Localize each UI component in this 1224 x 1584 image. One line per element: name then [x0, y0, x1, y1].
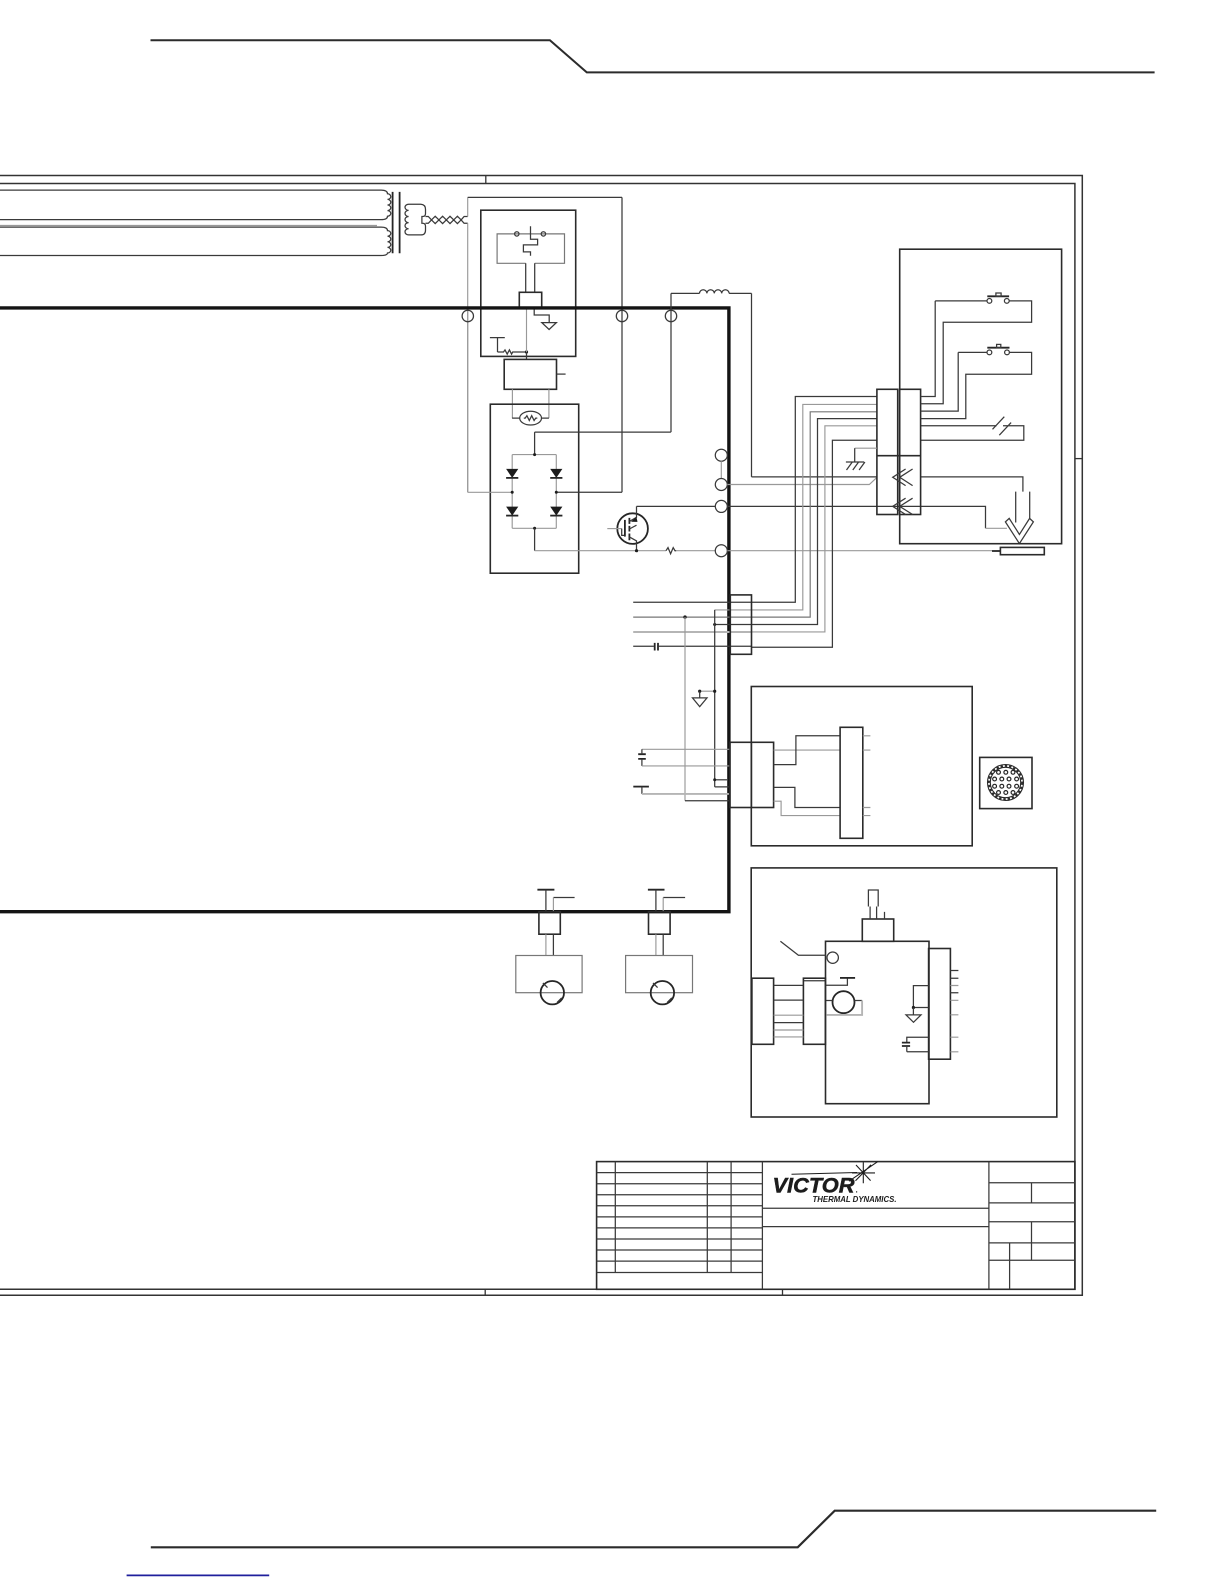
connector J5 left half — [752, 978, 774, 1044]
connector CNC pins — [993, 770, 1019, 794]
terminal TB1 stud block — [539, 912, 560, 935]
wire bridge branches — [512, 455, 556, 529]
title block right rows — [989, 1183, 1075, 1261]
resistor element inside CB1 — [524, 416, 538, 421]
node AC left — [511, 491, 514, 494]
wire DC- drop — [534, 528, 536, 550]
node hook — [912, 1006, 915, 1009]
wire coil to junction — [526, 308, 528, 352]
connector J1 torch right half — [900, 389, 921, 514]
igbt Q1 arrow — [631, 517, 638, 522]
relay coil box on bulkhead — [519, 292, 541, 307]
feedthrough bushing mid — [616, 310, 627, 321]
chassis ground symbol — [846, 462, 865, 470]
wire electrode lead right — [921, 477, 1023, 492]
wire coil ground jog — [534, 308, 549, 323]
wire AC input right — [556, 491, 622, 493]
footer link underline — [127, 1574, 270, 1576]
contact chevrons upper — [893, 469, 913, 486]
terminal TB1 tsensor — [537, 889, 554, 891]
wire motor return loop — [826, 1001, 863, 1015]
drawing frame inner border — [0, 184, 1075, 1290]
wire pilot return — [727, 477, 877, 484]
relay plunger stem — [526, 263, 535, 292]
wire driver to breaker — [512, 389, 549, 418]
wire control 5 left — [633, 631, 751, 633]
pins inlet — [870, 907, 884, 920]
relay contact terminal left — [515, 232, 519, 236]
igbt Q1 body — [617, 513, 648, 544]
logo star — [849, 1162, 878, 1184]
connector J5 right half — [803, 978, 825, 1044]
wire electrode feed drop — [751, 293, 753, 477]
connector J7 board edge left half — [730, 742, 751, 807]
diode D1 — [506, 469, 518, 478]
connector CNC square — [980, 757, 1032, 808]
ticks TB2 — [653, 983, 672, 1002]
capacitor C3 — [902, 1043, 910, 1046]
wire PIP loop back — [921, 426, 1024, 441]
terminal TB1 elbow — [553, 897, 574, 899]
flow switch lever — [780, 941, 826, 955]
logo swoosh — [792, 1173, 858, 1175]
switch SW2 bar — [987, 347, 1009, 349]
relay K1 contact housing — [497, 234, 564, 263]
pins J6 right dark — [950, 971, 958, 993]
feedthrough grommet 3 — [715, 500, 727, 512]
wire secondary leads — [426, 217, 432, 224]
transformer T1 secondary winding — [405, 204, 425, 235]
igbt Q1 gate bar — [624, 520, 626, 537]
node lower tap — [713, 778, 716, 781]
contact chevrons lower — [893, 498, 913, 514]
wire emitter bus — [535, 550, 716, 552]
wire work lead — [727, 550, 992, 552]
flow switch contact — [827, 952, 838, 963]
relay driver box A1 — [504, 359, 556, 389]
wire pilot to tip — [986, 527, 1007, 529]
thermostat TS1 — [490, 338, 505, 352]
switch SW2 button — [997, 344, 1001, 347]
header J3 on board — [840, 727, 863, 838]
wire control 5 — [752, 426, 877, 632]
wire board pin 4 — [774, 801, 841, 815]
switch SW1 button — [996, 293, 1001, 296]
feedthrough grommet 1 — [715, 449, 727, 461]
feedthrough grommet 4 — [715, 545, 727, 557]
title block right sub columns — [1010, 1183, 1032, 1290]
wire electrode feed to connector — [752, 476, 877, 478]
connector J4 top — [862, 919, 893, 941]
connector J7 board edge right half — [751, 742, 773, 807]
connector J6 right — [929, 949, 951, 1060]
gas control box — [751, 868, 1057, 1117]
connector CNC ring — [988, 765, 1024, 801]
ferrite beads L1 — [432, 216, 462, 223]
wire board pin 3 — [774, 787, 841, 807]
header rule — [151, 40, 1155, 72]
diode D3 — [506, 507, 518, 516]
relay contact terminal right — [541, 232, 545, 236]
wire pilot to torch — [727, 506, 985, 528]
ground arrow mid — [693, 691, 708, 706]
igbt Q1 emitter — [629, 537, 636, 551]
pump motor M1 — [833, 991, 855, 1013]
node relay coil junction — [525, 350, 528, 353]
resistor R1 — [498, 350, 526, 354]
switch SW2 wire right — [921, 352, 1032, 418]
wire AC input left — [468, 491, 513, 493]
title block revision rows — [597, 1173, 763, 1273]
wire shield ground stub — [855, 447, 877, 449]
title block logo dividers — [762, 1208, 989, 1226]
terminal TB1 stud — [541, 981, 564, 1004]
wire AC loop top and right — [468, 197, 622, 492]
relay K1 box — [481, 210, 576, 356]
gas inlet fork — [868, 890, 878, 907]
wire work lead tip — [992, 550, 1000, 552]
title block outline — [597, 1162, 1075, 1290]
relay actuator flag — [523, 226, 537, 255]
work plate — [1000, 547, 1044, 554]
electrode shaft — [1016, 492, 1030, 523]
shunt resistor R2 — [666, 548, 676, 554]
ground arrow gas — [906, 1008, 921, 1023]
frame tick top — [485, 176, 487, 184]
transformer T1 core — [393, 192, 400, 253]
switch SW1 wire right — [921, 301, 1032, 404]
svg-text:THERMAL DYNAMICS.: THERMAL DYNAMICS. — [813, 1194, 897, 1204]
wire motor leads — [826, 1000, 863, 1002]
wire TB2 drops — [655, 934, 657, 955]
frame tick right — [1075, 458, 1082, 460]
wire junction to driver box — [526, 352, 528, 359]
wire control 6 left — [633, 645, 654, 647]
terminal TB2 stud block — [649, 912, 671, 935]
thermal breaker CB1 — [520, 411, 542, 425]
ground arrow under coil — [542, 323, 557, 330]
node ground tap right — [713, 690, 716, 693]
stubs J3 right — [863, 736, 871, 816]
switch SW1 bar — [987, 295, 1009, 297]
node bridge DC+ — [533, 453, 536, 456]
connector J1 divider — [877, 455, 921, 457]
wire control 1 — [633, 397, 877, 603]
wire shield to wall — [685, 800, 729, 802]
wire secondary riser left through feedthrough — [467, 310, 469, 492]
switch SW1 terminals — [987, 299, 992, 304]
node ground tap left — [698, 690, 701, 693]
stub driver box right — [557, 373, 566, 375]
wire control 4 — [713, 419, 877, 625]
feedthrough bushing left — [462, 310, 473, 321]
node AC right — [555, 491, 558, 494]
feedthrough grommet 2 — [715, 479, 727, 491]
pins J6 right gray — [950, 986, 958, 1052]
drawing frame outer border — [0, 176, 1082, 1296]
wire inductor leads — [671, 292, 752, 294]
igbt Q1 mid tap — [629, 525, 636, 529]
switch SW1 wire left — [921, 301, 987, 397]
diode D2 — [550, 469, 562, 478]
diode D4 — [550, 507, 562, 516]
footer rule — [151, 1511, 1156, 1548]
wire cap pair lower — [642, 765, 730, 767]
node bridge DC- — [533, 527, 536, 530]
wire DC+ to inductor riser — [535, 432, 671, 455]
terminal TB2 housing — [626, 956, 693, 993]
title block columns — [615, 1162, 989, 1290]
igbt Q1 collector — [629, 506, 636, 521]
capacitor C1 — [655, 643, 658, 651]
wire control 2 — [715, 404, 877, 610]
wire shield drop — [684, 617, 686, 801]
switch SW2 terminals — [987, 350, 992, 355]
cable break marks — [993, 417, 1012, 436]
wire board pin 1 — [774, 749, 841, 751]
terminal TB2 stud — [651, 981, 674, 1004]
wire tap to ground arrow — [700, 690, 715, 692]
wire beads to loop — [461, 217, 468, 224]
capacitor C2 — [638, 754, 646, 759]
wire thermistor to wall — [642, 793, 729, 795]
igbt Q1 channel bar — [628, 518, 630, 540]
pressure switch wire — [803, 978, 847, 985]
wire TB1 drops — [545, 934, 547, 955]
wire cap pair upper — [642, 748, 730, 750]
wire control 3 — [633, 412, 877, 617]
wire collector to feedthrough — [637, 505, 716, 507]
terminal TB2 tsensor — [648, 889, 665, 891]
wire CB1 leads — [512, 417, 549, 419]
bridge rectifier box — [490, 404, 578, 573]
harness wires J5 — [774, 985, 804, 1022]
wire board pin 2 — [774, 736, 841, 765]
torch box — [900, 249, 1062, 544]
wire grommet link — [720, 461, 722, 478]
transformer T1 primary winding lower — [0, 227, 391, 255]
transformer T1 primary winding upper — [0, 190, 391, 220]
connector J1 torch left half — [877, 389, 898, 514]
igbt Q1 gate lead — [607, 528, 621, 530]
wire cap stubs — [641, 749, 643, 766]
node control 3 tap — [683, 615, 686, 618]
pressure switch bar — [840, 977, 855, 979]
control board PC1 — [751, 687, 972, 846]
wire AC loop left — [467, 197, 469, 492]
terminal TB1 housing — [516, 956, 582, 993]
wire chassis drop — [715, 610, 729, 787]
electrode arrow tip — [1005, 518, 1033, 543]
node emitter junction — [635, 549, 638, 552]
connector J2 bulkhead — [730, 595, 751, 654]
feedthrough bushing right — [665, 310, 676, 321]
inductor L2 — [700, 290, 730, 294]
enclosure boundary thick line — [0, 308, 729, 912]
frame tick bottom 1 — [484, 1289, 486, 1295]
wire PIP loop out — [921, 425, 997, 427]
terminal TB2 elbow — [663, 897, 685, 899]
wire inductor riser — [670, 293, 672, 432]
wire hook loop — [913, 986, 928, 1008]
thermistor T2 — [633, 786, 649, 788]
wire cap loop lower — [907, 1046, 929, 1052]
frame tick bottom 2 — [782, 1289, 784, 1295]
wire bridge top rail — [512, 454, 556, 456]
wire mid ground lead — [0, 225, 377, 227]
node control 4 tap — [713, 623, 716, 626]
gas solenoid box — [826, 941, 930, 1103]
switch SW2 wire left — [921, 352, 987, 411]
wire cap loop upper — [907, 1037, 929, 1042]
wire bridge bottom rail — [512, 527, 556, 529]
wire lower tap stub — [715, 779, 727, 781]
wire control 6 — [659, 440, 877, 647]
ticks TB1 — [543, 983, 562, 1002]
